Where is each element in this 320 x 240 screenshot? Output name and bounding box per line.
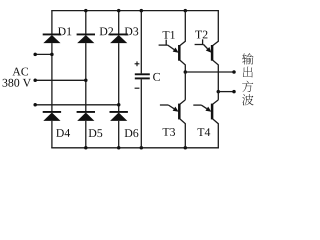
label output text bo (波): [242, 94, 254, 105]
junction top bus leg3: [117, 9, 121, 13]
label output text chu (出): [243, 67, 253, 78]
wire T2 emitter: [213, 60, 219, 91]
terminal AC phase 2: [33, 79, 37, 83]
wire leg2 lower: [85, 121, 87, 148]
label capacitor minus: [135, 87, 140, 89]
junction bottom bus capacitor: [140, 146, 144, 150]
wire bottom DC bus: [51, 147, 219, 149]
terminal output lower: [232, 90, 236, 94]
transistor T4 gate: [193, 105, 211, 112]
wire capacitor lower: [140, 79, 142, 148]
label D3: [125, 27, 139, 35]
wire T1 collector: [180, 11, 185, 46]
wire leg3 lower: [118, 121, 120, 148]
wire top DC bus: [51, 10, 219, 12]
junction phase 1 to leg1: [50, 53, 54, 57]
terminal AC phase 1: [33, 53, 37, 57]
wire leg3 middle: [118, 43, 120, 112]
label AC: [12, 68, 28, 76]
junction top bus inverter left: [184, 9, 188, 13]
terminal AC phase 3: [33, 103, 37, 107]
transistor T1 gate: [159, 40, 179, 53]
diode D1: [43, 34, 61, 43]
diode D5: [77, 112, 95, 121]
wire left midpoint to T3: [184, 72, 186, 100]
junction bottom bus inverter left: [184, 146, 188, 150]
label T1: [163, 31, 175, 39]
junction bottom bus leg3: [117, 146, 121, 150]
diode D3: [110, 34, 128, 43]
wire AC phase 3: [35, 104, 119, 106]
capacitor C plates: [135, 74, 150, 78]
wire output lower: [218, 91, 234, 93]
transistor T3 gate: [160, 105, 179, 112]
diode D6: [110, 112, 128, 121]
label output text shu (输): [242, 53, 253, 64]
wire leg3 upper: [118, 11, 120, 35]
label capacitor plus: [135, 61, 140, 66]
transistor T4 bar: [211, 104, 214, 120]
label output text fang (方): [242, 81, 253, 92]
transistor T2 bar: [211, 45, 214, 61]
terminal output upper: [232, 70, 236, 74]
junction left midpoint: [184, 70, 188, 74]
junction bottom bus leg2: [84, 146, 88, 150]
junction top bus leg2: [84, 9, 88, 13]
wire AC phase 2: [35, 79, 86, 81]
wire AC phase 1: [35, 53, 52, 55]
junction top bus capacitor: [140, 9, 144, 13]
label D1: [58, 27, 71, 35]
transistor T2 gate: [195, 39, 212, 52]
transistor T3 bar: [178, 104, 181, 120]
junction phase 2 to leg2: [84, 79, 88, 83]
transistor T1 bar: [178, 45, 181, 61]
label T3: [163, 128, 175, 136]
wire T4 collector: [213, 100, 219, 104]
wire leg1 upper: [51, 11, 53, 35]
wire leg1 middle: [51, 43, 53, 112]
wire right midpoint to T4: [217, 92, 219, 100]
label T2: [195, 31, 207, 39]
diode D4: [43, 112, 61, 121]
junction right midpoint: [217, 90, 221, 94]
wire T3 emitter: [180, 119, 185, 148]
diode D2: [77, 34, 95, 43]
label 380 V: [3, 79, 31, 87]
label D4: [56, 129, 70, 137]
wire capacitor upper: [140, 11, 142, 74]
label T4: [198, 128, 211, 136]
label D5: [89, 129, 103, 137]
wire output upper: [185, 71, 234, 73]
wire leg2 upper: [85, 11, 87, 35]
label C: [153, 73, 160, 81]
wire T4 emitter: [213, 119, 219, 148]
junction phase 3 to leg3: [117, 103, 121, 107]
wire T1 emitter: [180, 60, 185, 72]
label D6: [125, 129, 139, 137]
label D2: [100, 27, 113, 35]
wire T2 collector: [213, 11, 219, 46]
wire leg2 middle: [85, 43, 87, 112]
wire leg1 lower: [51, 121, 53, 148]
wire T3 collector: [180, 100, 185, 104]
